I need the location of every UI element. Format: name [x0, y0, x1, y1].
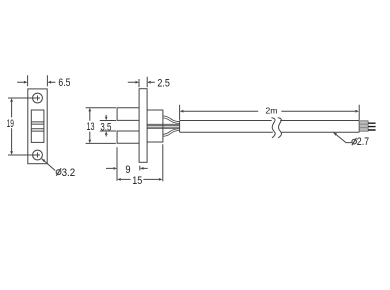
dim 13 line	[89, 111, 91, 140]
dim 3.5 arrows	[105, 115, 107, 137]
cable stripped end bundle	[359, 121, 368, 131]
dim 6.5 extension lines	[28, 75, 48, 86]
side view flange plate	[139, 89, 147, 163]
leader phi2.7	[333, 132, 351, 142]
cable break marks	[272, 118, 276, 138]
dim 2.5 arrows	[128, 81, 155, 83]
phi symbol 3.2	[56, 170, 61, 175]
front view sensor window	[31, 110, 44, 142]
cable outline	[180, 121, 360, 133]
front view outer body	[28, 89, 47, 164]
dim 2.5 extension lines	[139, 77, 147, 88]
svg-text:2.7: 2.7	[357, 136, 369, 148]
svg-text:6.5: 6.5	[58, 77, 70, 89]
svg-text:3.5: 3.5	[100, 122, 111, 134]
svg-text:2.5: 2.5	[157, 77, 170, 89]
leader phi3.2	[42, 159, 56, 171]
svg-text:2m: 2m	[265, 106, 277, 116]
lead wires from body to cable	[147, 124, 180, 128]
svg-text:13: 13	[87, 121, 95, 133]
svg-text:19: 19	[7, 118, 14, 130]
dim 9 arrows	[106, 167, 148, 169]
window slit lines	[31, 122, 44, 131]
phi symbol 2.7	[352, 139, 357, 144]
dim 15 extension lines	[117, 144, 163, 181]
dim 6.5 arrows	[17, 81, 55, 83]
dim 13 extension lines	[86, 108, 116, 144]
side view body	[147, 110, 163, 142]
svg-text:3.2: 3.2	[62, 167, 76, 179]
dim 2m line	[183, 110, 355, 112]
svg-text:9: 9	[125, 164, 130, 176]
svg-text:15: 15	[132, 175, 142, 187]
dim 3.5 extension lines	[100, 121, 116, 132]
dim 19 line	[11, 101, 13, 152]
mounting hole top	[33, 93, 43, 103]
mounting hole bottom	[33, 150, 43, 160]
dim 2m extension lines	[180, 105, 360, 120]
wire leads at cable end	[368, 123, 376, 130]
dim 9 tick	[139, 166, 141, 171]
side view lower prong	[117, 131, 139, 143]
side view upper prong	[117, 108, 139, 121]
dim 15 line	[121, 178, 159, 180]
dim 19 extension lines	[8, 98, 36, 155]
